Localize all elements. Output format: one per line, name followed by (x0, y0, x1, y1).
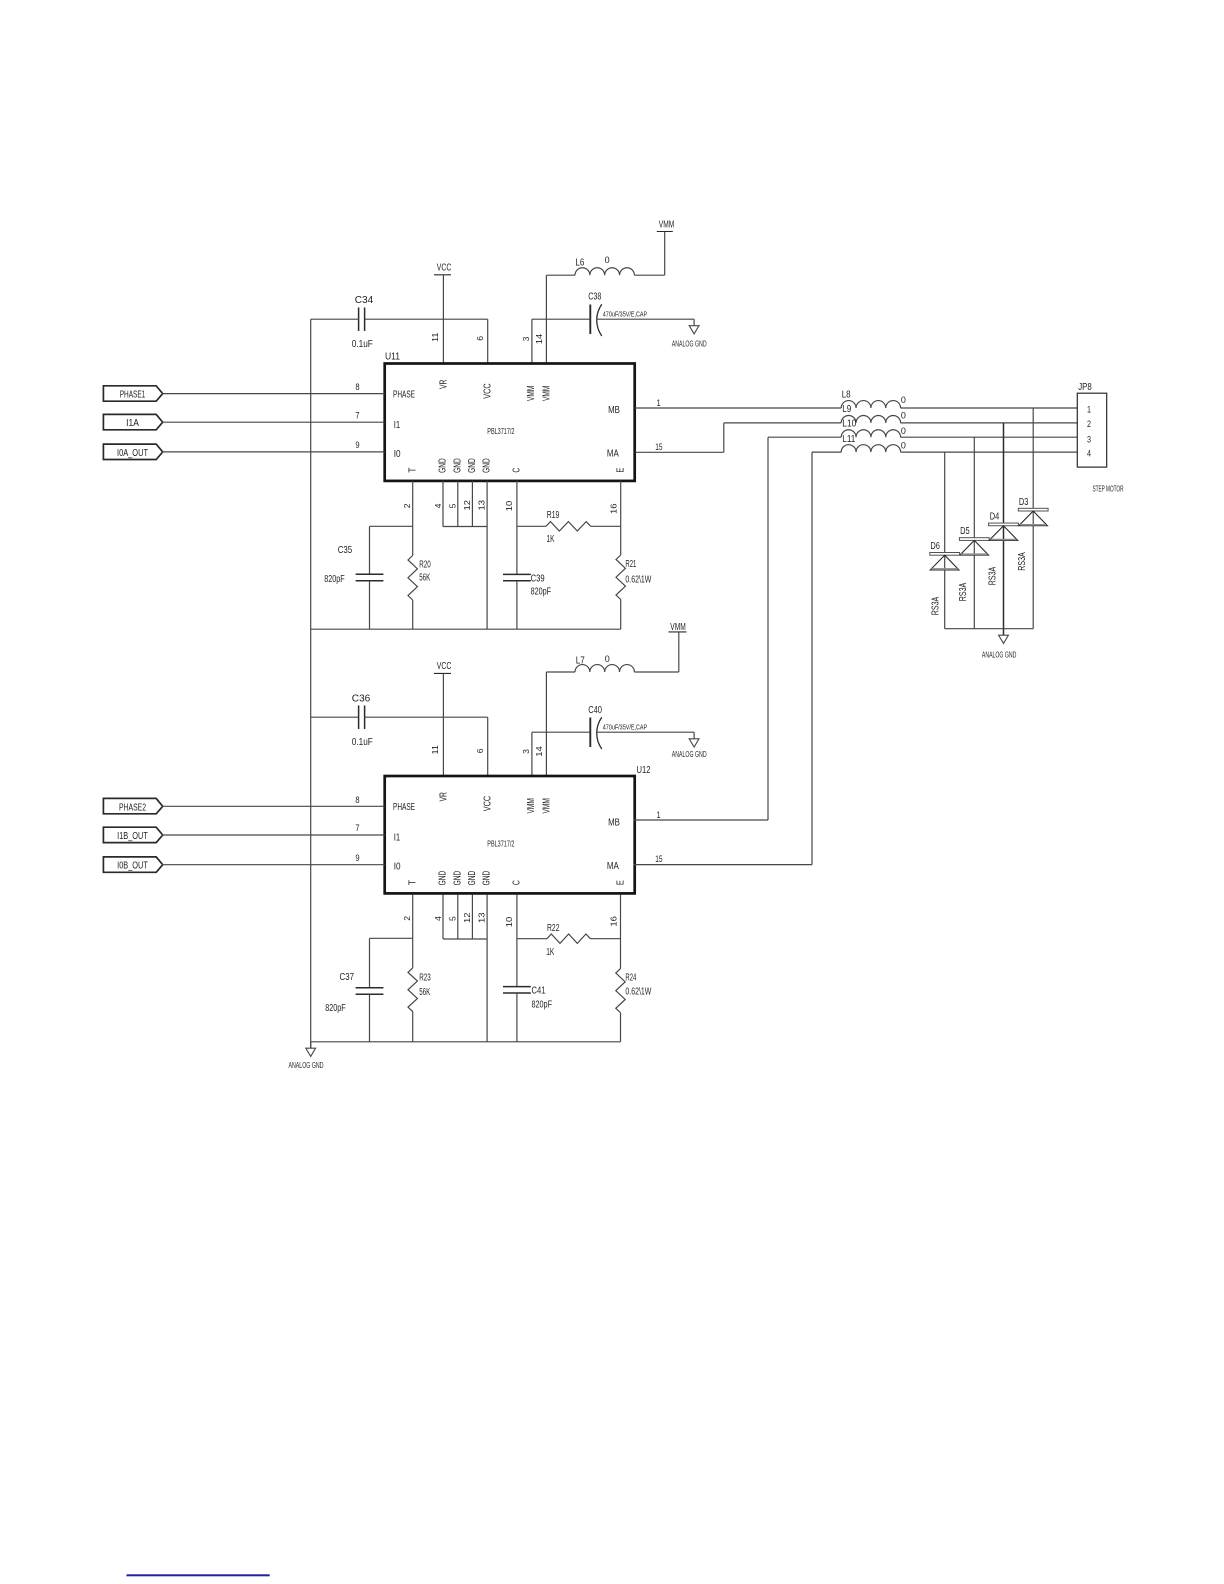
svg-text:0: 0 (901, 426, 906, 437)
svg-text:11: 11 (430, 332, 440, 342)
svg-text:MB: MB (608, 405, 620, 416)
inductor L8 (841, 390, 906, 408)
resistor R22 1K (546, 923, 590, 958)
wire riser row 3 (767, 437, 769, 820)
svg-text:I0: I0 (394, 449, 401, 460)
node PHASE1 input (103, 386, 162, 401)
svg-text:4: 4 (1087, 448, 1091, 459)
svg-text:PHASE: PHASE (393, 802, 415, 813)
svg-text:VMM: VMM (659, 220, 675, 231)
svg-text:2: 2 (402, 916, 412, 921)
power VCC (U12) (434, 661, 451, 674)
svg-text:MA: MA (607, 449, 619, 460)
wire VCC to U11 pin 11 (442, 275, 444, 364)
svg-text:VMM: VMM (670, 622, 686, 633)
svg-text:0: 0 (605, 654, 610, 665)
op-amp U11 PBL3717/2 driver IC body (385, 352, 635, 481)
ground ANALOG GND (C38) (672, 319, 707, 348)
svg-text:GND: GND (482, 458, 493, 473)
svg-text:GND: GND (467, 458, 478, 473)
svg-text:820pF: 820pF (532, 1000, 553, 1011)
wire L6 to VMM (634, 274, 664, 276)
resistor R19 1K (546, 510, 591, 545)
wire PHASE2 to U12 pin 8 (162, 805, 385, 807)
diode D4 (989, 512, 1019, 541)
wire C39 to gnd rail (516, 581, 518, 629)
svg-text:I0B_OUT: I0B_OUT (117, 861, 148, 872)
svg-text:56K: 56K (419, 987, 430, 998)
wire U11 pin 13 to gnd rail (486, 481, 488, 629)
svg-text:13: 13 (477, 912, 487, 923)
svg-text:ANALOG GND: ANALOG GND (672, 338, 707, 348)
resistor R23 56K (408, 968, 431, 1012)
capacitor C35 820pF (324, 526, 383, 629)
wire motor row 1 to JP8 pin 1 (901, 407, 1078, 409)
node I1B_OUT input (103, 827, 162, 842)
wire L7 to U12 pin 14 (546, 671, 575, 673)
svg-text:D6: D6 (930, 541, 940, 552)
wire left analog-gnd vertical bus (310, 319, 312, 1048)
wire R24 to gnd rail (620, 1013, 622, 1042)
svg-text:GND: GND (438, 871, 449, 886)
svg-text:VR: VR (439, 380, 450, 390)
wire motor row 4 left lead (812, 451, 841, 453)
svg-text:L7: L7 (576, 655, 585, 666)
wire I1A to U11 pin 7 (162, 421, 385, 423)
svg-text:8: 8 (355, 382, 359, 393)
svg-text:VCC: VCC (482, 796, 493, 811)
svg-text:MB: MB (608, 817, 620, 828)
svg-text:I0A_OUT: I0A_OUT (117, 448, 148, 459)
svg-text:11: 11 (430, 745, 440, 755)
svg-text:3: 3 (521, 749, 531, 754)
svg-text:GND: GND (452, 871, 463, 886)
svg-text:13: 13 (477, 500, 487, 511)
svg-text:PHASE1: PHASE1 (120, 390, 146, 401)
svg-text:16: 16 (609, 916, 619, 927)
svg-text:L11: L11 (842, 434, 855, 445)
svg-text:C40: C40 (588, 705, 602, 716)
inductor L7 (575, 654, 634, 672)
svg-text:C: C (512, 468, 523, 473)
wire C35 top link (370, 525, 413, 527)
wire I0A_OUT to U11 pin 9 (162, 451, 385, 453)
svg-text:PHASE: PHASE (393, 390, 415, 401)
wire U12 pin 3 to C40 rail (531, 732, 533, 776)
svg-text:L8: L8 (842, 390, 851, 401)
svg-text:9: 9 (355, 853, 359, 864)
svg-text:9: 9 (355, 440, 359, 451)
wire U12 gnd pins 4 5 12 13 bus (442, 895, 444, 940)
capacitor C40 470uF electrolytic (588, 705, 647, 749)
wire gnd rail of U12 network (311, 1041, 621, 1043)
svg-text:3: 3 (521, 336, 531, 341)
wire C36 rail to U12 pin 6 (311, 716, 359, 718)
wire U11 gnd pins 4 5 12 13 bus (442, 481, 444, 527)
capacitor C38 470uF electrolytic (588, 292, 647, 337)
svg-text:L10: L10 (842, 418, 856, 429)
wire I0B_OUT to U12 pin 9 (162, 864, 385, 866)
wire motor row 3 left lead (768, 436, 841, 438)
svg-text:GND: GND (452, 458, 463, 473)
wire motor row 3 to JP8 pin 3 (901, 436, 1078, 438)
wire U11 MB to motor row 1 (635, 407, 841, 409)
svg-text:ANALOG GND: ANALOG GND (672, 749, 707, 759)
svg-text:E: E (616, 880, 627, 885)
svg-text:U12: U12 (637, 765, 651, 776)
wire C38 rail (532, 318, 590, 320)
inductor L9 (841, 404, 906, 423)
svg-text:D3: D3 (1019, 497, 1029, 508)
svg-text:7: 7 (355, 410, 359, 421)
power VCC (U11) (434, 263, 451, 275)
svg-text:7: 7 (355, 823, 359, 834)
svg-text:470uF/35V/E,CAP: 470uF/35V/E,CAP (603, 723, 647, 732)
svg-text:I1: I1 (394, 420, 401, 431)
resistor R20 56K (408, 556, 431, 601)
svg-text:D4: D4 (990, 512, 1000, 523)
svg-text:PBL3717/2: PBL3717/2 (487, 840, 514, 849)
svg-text:R22: R22 (547, 923, 560, 934)
svg-text:0: 0 (605, 255, 610, 266)
diode D3 (1018, 497, 1048, 526)
svg-text:2: 2 (402, 503, 412, 508)
svg-text:0.62\1W: 0.62\1W (625, 987, 651, 998)
svg-text:PHASE2: PHASE2 (119, 802, 146, 813)
node PHASE2 input (103, 798, 162, 813)
svg-text:6: 6 (475, 336, 485, 341)
wire U12 pin 2 drop (412, 895, 414, 969)
svg-text:1K: 1K (547, 534, 555, 545)
svg-text:GND: GND (467, 871, 478, 886)
connector JP8 STEP MOTOR header (1077, 382, 1123, 494)
wire R23 to gnd rail (412, 1012, 414, 1042)
svg-text:E: E (616, 467, 627, 472)
wire motor row 2 to JP8 pin 2 (901, 422, 1078, 424)
wire riser row 4 (811, 452, 813, 864)
wire U12 MB to motor row 3 (634, 819, 768, 821)
capacitor C39 820pF (503, 573, 551, 597)
svg-text:VMM: VMM (542, 386, 553, 401)
capacitor C41 820pF (503, 986, 552, 1011)
svg-text:T: T (408, 880, 419, 885)
svg-text:3: 3 (1087, 435, 1091, 446)
svg-text:C35: C35 (338, 545, 353, 556)
svg-text:15: 15 (655, 442, 662, 453)
wire blue footer rule (127, 1574, 270, 1576)
svg-text:820pF: 820pF (531, 587, 552, 598)
svg-text:C36: C36 (352, 694, 371, 705)
svg-text:RS3A: RS3A (987, 567, 998, 586)
wire U12 MA to motor row 4 (634, 864, 812, 866)
svg-text:C41: C41 (532, 986, 546, 997)
svg-text:0: 0 (901, 395, 906, 406)
svg-text:R24: R24 (625, 973, 636, 984)
svg-text:0.1uF: 0.1uF (352, 737, 373, 748)
capacitor C34 (352, 295, 374, 350)
svg-text:RS3A: RS3A (1017, 552, 1028, 571)
ground ANALOG GND (C40) (672, 732, 707, 759)
node I1A input (103, 414, 162, 429)
svg-text:MA: MA (607, 861, 619, 872)
wire U12 pin 16 drop (620, 895, 622, 969)
svg-text:12: 12 (462, 912, 472, 923)
wire row 2 drop to D4 (1003, 423, 1005, 635)
wire motor row 4 to JP8 pin 4 (901, 451, 1078, 453)
inductor L6 (575, 255, 634, 275)
svg-text:14: 14 (534, 746, 544, 757)
svg-text:C38: C38 (588, 292, 601, 303)
svg-text:4: 4 (433, 916, 443, 921)
svg-text:1: 1 (657, 810, 661, 821)
svg-text:JP8: JP8 (1078, 382, 1092, 393)
power VMM (U12) (669, 622, 687, 633)
wire U11 pin 3 to C38 rail (531, 319, 533, 363)
resistor R24 0.62 1W (616, 969, 652, 1013)
svg-text:0.62\1W: 0.62\1W (625, 574, 651, 585)
wire C41 to gnd rail (516, 993, 518, 1042)
svg-text:L6: L6 (575, 257, 584, 268)
wire U11 pin 6 drop (487, 319, 489, 363)
resistor R21 0.62 1W (616, 555, 652, 600)
svg-text:1: 1 (657, 398, 661, 409)
svg-text:0.1uF: 0.1uF (352, 339, 373, 350)
wire U12 pin 13 to gnd rail (486, 895, 488, 1042)
svg-text:820pF: 820pF (325, 1003, 346, 1014)
svg-text:L9: L9 (842, 404, 851, 415)
wire U11 pin 16 drop (620, 481, 622, 555)
wire R21 to gnd rail (620, 600, 622, 630)
wire U11 pin 10 drop (516, 481, 518, 574)
inductor L11 (841, 434, 906, 452)
wire U12 pin 6 drop (487, 717, 489, 776)
wire row 4 drop to D6 (944, 452, 946, 629)
svg-text:10: 10 (504, 501, 514, 512)
svg-text:820pF: 820pF (324, 574, 345, 585)
power VMM (U11) (657, 220, 675, 232)
capacitor C36 (352, 694, 373, 748)
svg-text:RS3A: RS3A (931, 597, 942, 616)
svg-text:470uF/35V/E,CAP: 470uF/35V/E,CAP (603, 309, 647, 318)
svg-text:4: 4 (433, 503, 443, 508)
svg-text:C37: C37 (340, 972, 355, 983)
wire C34 rail to U11 pin 6 (311, 318, 359, 320)
svg-text:10: 10 (504, 917, 514, 928)
svg-text:0: 0 (901, 410, 906, 421)
svg-text:8: 8 (355, 795, 359, 806)
svg-text:GND: GND (482, 871, 493, 886)
wire R22 right lead (590, 938, 620, 940)
svg-text:14: 14 (534, 334, 544, 345)
svg-text:I1B_OUT: I1B_OUT (117, 831, 148, 842)
svg-text:12: 12 (462, 500, 472, 511)
svg-text:VCC: VCC (482, 383, 493, 398)
svg-text:5: 5 (448, 503, 458, 508)
svg-text:R19: R19 (547, 510, 560, 521)
wire VCC to U12 pin 11 (442, 673, 444, 776)
svg-text:I1: I1 (394, 832, 401, 843)
wire U11 pin 2 drop (412, 481, 414, 556)
svg-text:R21: R21 (625, 559, 636, 570)
wire U11 MA jog to motor row 2 (635, 451, 724, 453)
svg-text:PBL3717/2: PBL3717/2 (487, 427, 514, 436)
svg-text:VCC: VCC (437, 263, 452, 274)
svg-text:0: 0 (901, 441, 906, 452)
node I0B_OUT input (103, 857, 162, 872)
svg-text:C: C (512, 880, 523, 885)
svg-text:R23: R23 (419, 972, 431, 983)
op-amp U12 PBL3717/2 driver IC body (385, 765, 651, 893)
svg-text:6: 6 (475, 748, 485, 753)
svg-text:15: 15 (655, 854, 662, 865)
svg-text:STEP MOTOR: STEP MOTOR (1093, 483, 1124, 493)
svg-text:1K: 1K (546, 947, 554, 958)
wire I1B_OUT to U12 pin 7 (162, 834, 385, 836)
wire diode gnd rail (945, 628, 1033, 630)
svg-text:5: 5 (448, 916, 458, 921)
wire row 1 drop to D3 (1032, 408, 1034, 629)
wire R19 left lead (517, 525, 546, 527)
svg-text:2: 2 (1087, 419, 1091, 430)
svg-text:I0: I0 (394, 862, 401, 873)
diode D5 (959, 526, 989, 555)
svg-text:VCC: VCC (437, 661, 452, 672)
wire R19 right lead (591, 525, 621, 527)
wire R20 to gnd rail (412, 600, 414, 629)
svg-text:I1A: I1A (126, 418, 139, 429)
wire R22 left lead (517, 938, 547, 940)
svg-text:RS3A: RS3A (958, 583, 969, 602)
node I0A_OUT input (103, 444, 162, 459)
svg-text:56K: 56K (419, 573, 430, 584)
svg-text:C39: C39 (531, 573, 545, 584)
inductor L10 (841, 418, 906, 437)
svg-text:D5: D5 (960, 526, 970, 537)
ground ANALOG GND (diodes) (982, 635, 1017, 659)
svg-text:U11: U11 (385, 352, 400, 363)
svg-text:VMM: VMM (542, 798, 553, 813)
diode D6 (930, 541, 960, 570)
wire C40 rail (532, 731, 590, 733)
wire VMM to L7 (678, 632, 680, 672)
wire PHASE1 to U11 pin 8 (162, 393, 385, 395)
ground ANALOG GND (bottom left) (289, 1042, 324, 1070)
svg-text:ANALOG GND: ANALOG GND (982, 649, 1017, 659)
svg-text:ANALOG GND: ANALOG GND (289, 1060, 324, 1070)
svg-text:VR: VR (439, 792, 450, 802)
wire U11 pin 14 riser to L6 (545, 275, 547, 363)
svg-text:16: 16 (609, 503, 619, 514)
svg-text:GND: GND (438, 458, 449, 473)
wire gnd rail of U11 network (311, 628, 621, 630)
svg-text:VMM: VMM (526, 386, 537, 401)
wire row 3 drop to D5 (973, 437, 975, 629)
svg-text:1: 1 (1087, 405, 1091, 416)
svg-text:VMM: VMM (526, 798, 537, 813)
svg-text:R20: R20 (419, 560, 431, 571)
svg-text:C34: C34 (355, 295, 374, 306)
svg-text:T: T (408, 468, 419, 473)
wire U12 pin 10 drop (516, 895, 518, 987)
capacitor C37 820pF (325, 938, 383, 1042)
wire C37 top link (370, 937, 413, 939)
